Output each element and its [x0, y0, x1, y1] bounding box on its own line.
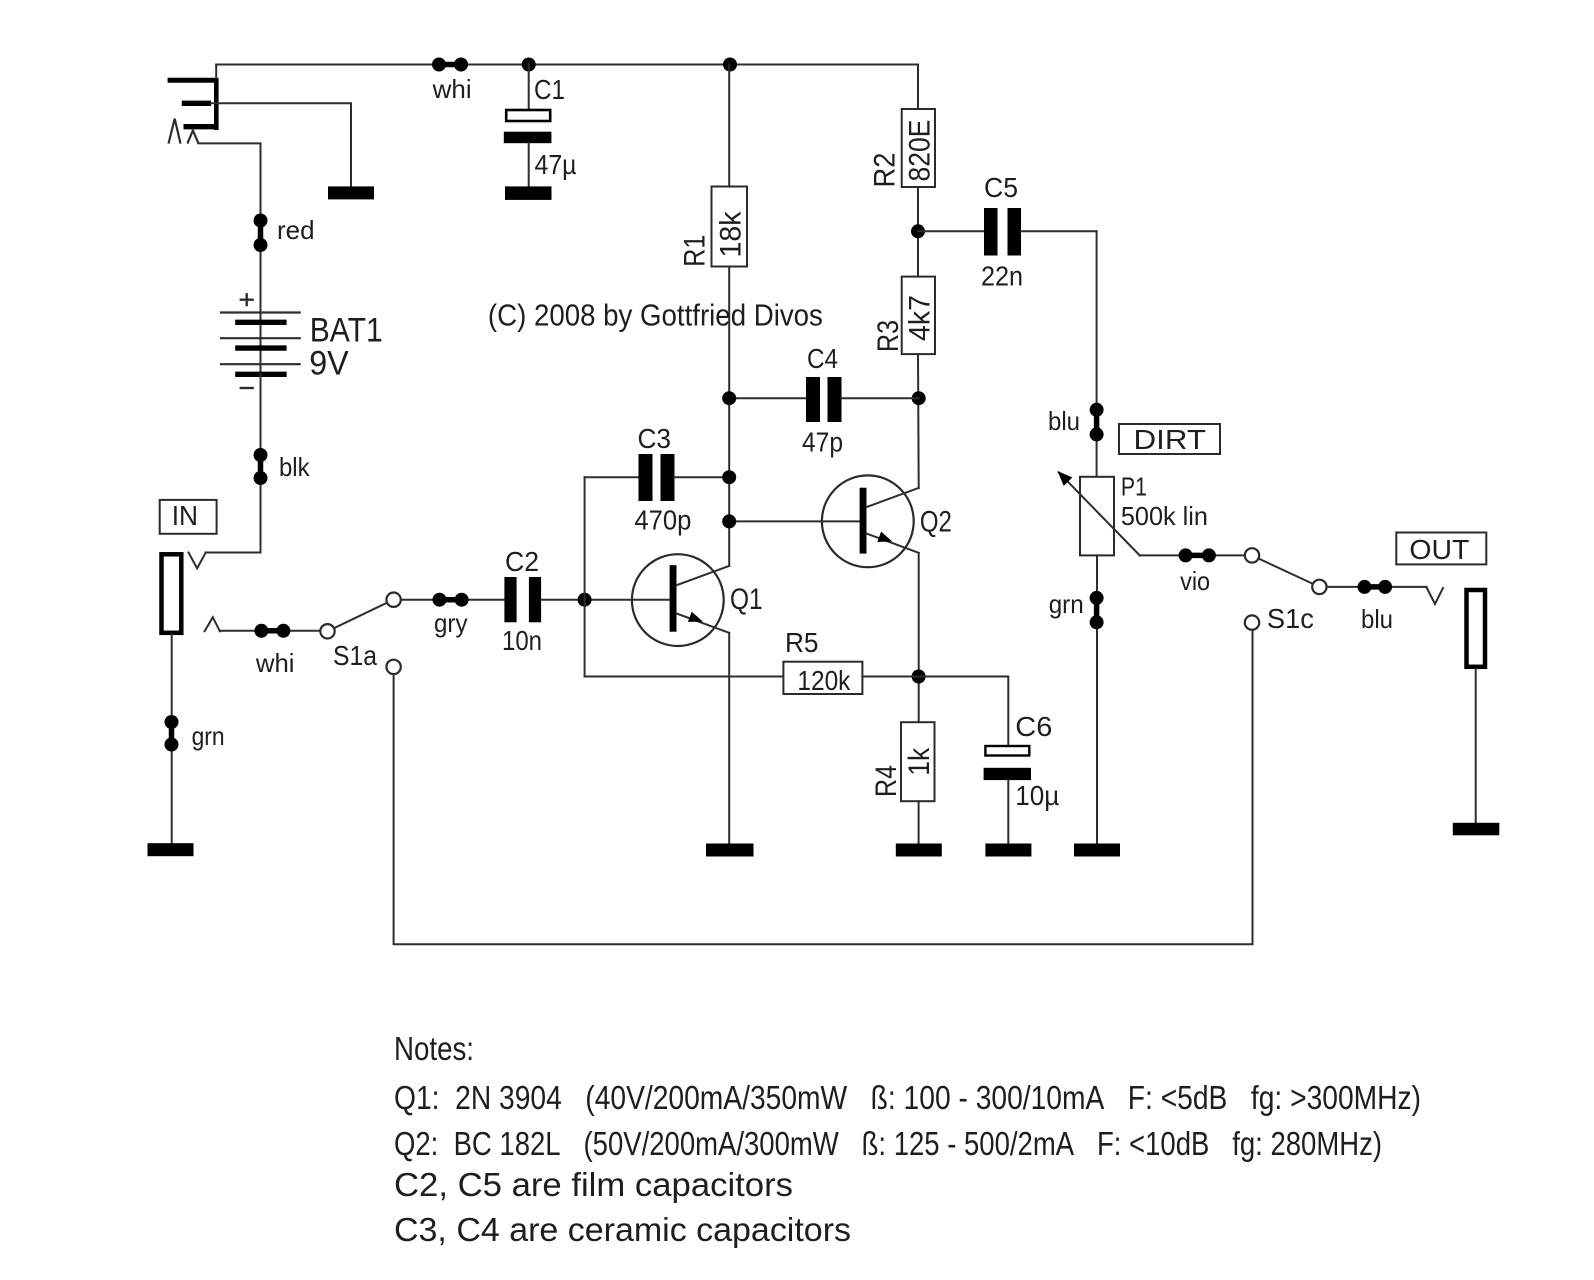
switch S1c: [1245, 548, 1327, 634]
svg-text:C1: C1: [534, 74, 565, 105]
resistor R1 18k: [678, 58, 747, 267]
connector gry: [433, 593, 469, 638]
svg-text:Q2: Q2: [920, 506, 952, 539]
junction (emitter/R4/R5/C6 node): [912, 670, 926, 684]
svg-text:whi: whi: [432, 74, 472, 104]
svg-text:C2, C5 are film capacitors: C2, C5 are film capacitors: [394, 1166, 793, 1203]
wire jack switch to battery plus: [199, 143, 261, 312]
connector grn (IN): [165, 715, 225, 752]
svg-text:C4: C4: [807, 343, 838, 374]
wire P1 wiper to S1c: [1140, 554, 1245, 556]
svg-text:blu: blu: [1361, 604, 1393, 634]
wire C5 to P1: [1096, 231, 1098, 476]
junction (C3 right): [722, 470, 736, 484]
ground (C1): [505, 186, 552, 200]
svg-text:R5: R5: [785, 627, 819, 658]
connector red: [254, 214, 315, 253]
connector grn (P1): [1049, 589, 1104, 629]
svg-text:1k: 1k: [903, 747, 936, 776]
wire base node feedback riser: [584, 477, 586, 676]
node IN label box: [160, 500, 217, 534]
svg-text:C6: C6: [1015, 711, 1052, 742]
capacitor C3 470p: [585, 423, 730, 536]
svg-text:9V: 9V: [309, 345, 349, 383]
svg-text:R2: R2: [869, 153, 902, 188]
capacitor C6 10u electrolytic: [919, 677, 1060, 844]
svg-text:10µ: 10µ: [1015, 780, 1059, 811]
wire battery minus to IN jack tip: [206, 374, 261, 552]
svg-text:grn: grn: [1049, 589, 1084, 619]
wire IN jack to ground: [171, 634, 173, 843]
svg-text:blu: blu: [1048, 406, 1080, 436]
connector whi (input): [254, 624, 294, 678]
svg-text:S1a: S1a: [333, 640, 377, 671]
svg-text:470p: 470p: [634, 505, 691, 536]
wire Q1 emitter to ground: [728, 633, 730, 844]
wire jack middle contact to ground: [211, 103, 351, 186]
svg-text:IN: IN: [172, 500, 198, 531]
svg-text:S1c: S1c: [1267, 603, 1314, 634]
svg-text:C2: C2: [505, 546, 539, 577]
svg-text:gry: gry: [434, 608, 468, 638]
wire P1 bottom to ground: [1096, 555, 1098, 843]
capacitor C2 10n: [502, 546, 542, 656]
ground (C6): [985, 844, 1031, 857]
svg-text:120k: 120k: [797, 665, 851, 696]
junction (C4 right): [912, 391, 926, 405]
node OUT label box: [1396, 533, 1486, 565]
wire R1 to Q1 collector: [728, 267, 730, 566]
connector vio: [1179, 548, 1216, 596]
transistor Q2 BC182L: [822, 475, 952, 567]
jack OUT tip contact: [1427, 588, 1443, 605]
svg-text:Q1: 2N 3904 (40V/200mA/350m: Q1: 2N 3904 (40V/200mA/350mW ß: 100 - 30…: [394, 1079, 1421, 1116]
svg-text:grn: grn: [192, 721, 225, 751]
resistor R2 820E: [869, 109, 937, 188]
svg-text:Notes:: Notes:: [394, 1030, 474, 1067]
jack OUT body: [1467, 590, 1486, 667]
jack IN sleeve contact: [205, 617, 220, 631]
svg-text:820E: 820E: [904, 120, 937, 182]
notes text: [394, 1030, 1421, 1248]
ground (R4): [896, 844, 942, 857]
wire R4 to ground: [918, 801, 920, 843]
node DIRT label box: [1119, 424, 1220, 455]
svg-text:vio: vio: [1180, 566, 1210, 596]
resistor R3 4k7: [872, 277, 937, 355]
svg-text:C3: C3: [638, 423, 672, 454]
battery BAT1 9V: [220, 293, 383, 388]
svg-text:R1: R1: [678, 235, 711, 267]
junction (C2/C3/base node): [578, 593, 592, 607]
svg-text:47p: 47p: [802, 427, 843, 458]
capacitor C5 22n: [918, 172, 1097, 292]
ground (P1): [1074, 844, 1120, 857]
wire R3 to Q2 collector: [917, 354, 920, 488]
wire OUT jack to ground: [1475, 669, 1477, 823]
wire IN sleeve to S1a: [220, 630, 321, 632]
svg-text:red: red: [277, 215, 315, 245]
svg-text:BAT1: BAT1: [310, 311, 383, 349]
wire S1c to OUT jack: [1327, 586, 1427, 588]
capacitor C1 47u electrolytic: [504, 58, 577, 187]
jack IN body: [162, 554, 182, 633]
svg-text:P1: P1: [1121, 472, 1147, 502]
ground (IN jack): [148, 843, 194, 856]
svg-text:500k lin: 500k lin: [1121, 501, 1208, 531]
resistor R4 1k: [870, 722, 936, 801]
svg-text:C5: C5: [984, 172, 1018, 203]
svg-text:DIRT: DIRT: [1134, 424, 1207, 455]
ground (Q1 emitter): [706, 844, 754, 857]
svg-text:Q2: BC 182L (50V/200mA/300m: Q2: BC 182L (50V/200mA/300mW ß: 125 - 50…: [394, 1125, 1382, 1162]
transistor Q1 2N3904: [632, 554, 763, 646]
svg-text:OUT: OUT: [1409, 534, 1469, 565]
wire R2 to node: [917, 187, 919, 277]
svg-text:22n: 22n: [981, 261, 1023, 292]
svg-text:R3: R3: [872, 320, 905, 352]
resistor R5 120k: [585, 627, 919, 696]
switch S1a: [320, 593, 401, 675]
connector whi (V+): [432, 58, 472, 104]
jack IN tip contact: [189, 553, 206, 569]
svg-text:whi: whi: [255, 648, 295, 678]
capacitor C4 47p: [729, 343, 919, 458]
wire C2 to Q1 base: [541, 599, 670, 601]
ground (OUT jack): [1453, 823, 1500, 836]
svg-text:18k: 18k: [714, 211, 747, 258]
wire rail to R2: [917, 65, 919, 110]
svg-text:(C) 2008 by Gottfried Divos: (C) 2008 by Gottfried Divos: [488, 297, 823, 332]
ground (jack middle contact): [328, 186, 374, 199]
wire Q1 collector to Q2 base: [729, 520, 859, 522]
svg-text:Q1: Q1: [730, 583, 763, 616]
junction (Q2 base tap): [722, 514, 736, 528]
connector blu (output): [1358, 580, 1394, 634]
junction (R2/R3/C5 node): [911, 224, 925, 238]
svg-text:4k7: 4k7: [904, 295, 937, 341]
power jack J1 (battery clip): [168, 78, 219, 144]
wire S1a to C2: [401, 599, 505, 601]
wire jack top contact to rail: [215, 65, 217, 79]
wire V+ top rail: [216, 64, 918, 66]
potentiometer P1 500k lin: [1058, 471, 1208, 555]
connector blu (to P1): [1048, 403, 1104, 442]
wire bypass S1a to S1c: [394, 630, 1253, 944]
svg-text:C3, C4 are ceramic capacitors: C3, C4 are ceramic capacitors: [394, 1211, 851, 1248]
svg-text:R4: R4: [870, 765, 903, 797]
connector blk: [254, 448, 311, 485]
svg-text:47µ: 47µ: [535, 149, 577, 180]
junction (C4 left): [722, 391, 736, 405]
wire Q2 emitter down: [918, 553, 920, 722]
svg-text:10n: 10n: [502, 625, 542, 656]
svg-text:blk: blk: [279, 452, 311, 482]
